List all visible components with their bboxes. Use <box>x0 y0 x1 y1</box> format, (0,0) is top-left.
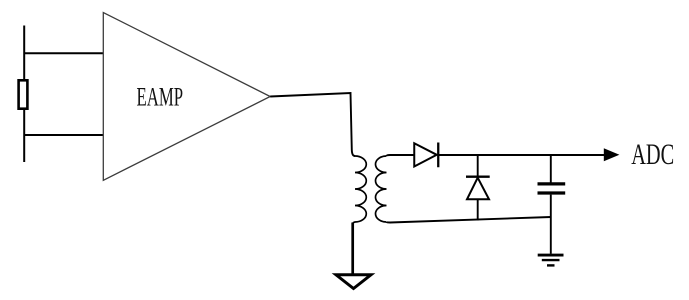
svg-text:EAMP: EAMP <box>137 82 184 112</box>
wire amp output to transformer <box>270 93 355 156</box>
node IN terminal vertical wire <box>23 26 25 163</box>
diode D2 cathode bar <box>466 176 490 178</box>
ground GND2 bar 3 <box>547 264 555 266</box>
wire bottom input to amp <box>24 134 103 136</box>
arrowhead to ADC <box>604 148 620 161</box>
wire secondary bottom (slanted) <box>387 217 551 223</box>
label EAMP <box>137 82 184 112</box>
resistor R1 (sensor element) <box>19 80 28 108</box>
wire primary to ground <box>351 223 354 274</box>
capacitor C1 bottom plate <box>538 191 566 194</box>
wire capacitor top lead <box>550 155 552 183</box>
diode D1 cathode bar <box>437 143 439 168</box>
ground GND1 (triangle) <box>336 275 371 289</box>
wire shunt diode top lead <box>477 155 479 177</box>
wire top input to amp <box>24 52 103 54</box>
svg-text:ADC: ADC <box>631 138 674 171</box>
label ADC <box>631 138 674 171</box>
inductor L2 transformer secondary winding <box>376 156 387 222</box>
diode D1 (series) triangle <box>414 143 437 166</box>
ground GND2 bar 2 <box>542 259 560 261</box>
wire shunt diode bottom lead <box>477 199 479 220</box>
wire secondary top to diode <box>387 155 415 156</box>
inductor L1 transformer primary winding <box>353 156 367 224</box>
wire capacitor bottom lead <box>550 195 552 254</box>
ground GND2 bar 1 <box>538 254 564 257</box>
op-amp U1 EAMP triangle <box>103 13 270 181</box>
capacitor C1 top plate <box>538 182 566 185</box>
wire diode to ADC arrow <box>438 154 604 156</box>
diode D2 (shunt) triangle <box>467 178 489 200</box>
